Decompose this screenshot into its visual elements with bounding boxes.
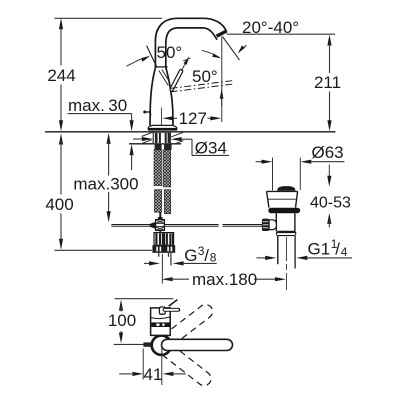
svg-text:/: / bbox=[335, 239, 340, 258]
svg-text:Ø63: Ø63 bbox=[312, 143, 344, 162]
wire hose-end reference line y=250 bbox=[55, 249, 153, 251]
node G1 1/4 thread dimension bbox=[257, 237, 353, 260]
svg-text:400: 400 bbox=[45, 195, 73, 214]
wire countertop line bbox=[45, 131, 335, 133]
node 211 height dimension bbox=[314, 35, 341, 132]
node max.300 dimension bbox=[73, 133, 138, 222]
node swing arc arrow bbox=[220, 89, 224, 106]
node clevis joint bbox=[269, 220, 276, 230]
svg-text:20°-40°: 20°-40° bbox=[242, 18, 299, 37]
node 50 degree tilt annotation bbox=[127, 43, 183, 66]
node spout tube side view bbox=[162, 339, 233, 350]
svg-text:/: / bbox=[204, 246, 209, 265]
svg-text:max. 30: max. 30 bbox=[68, 96, 127, 115]
wire lever alternate position dashed bbox=[171, 80, 235, 92]
wire top reference line y=18 bbox=[55, 17, 163, 19]
node diameter 34 dimension bbox=[133, 137, 229, 158]
node ball-rod knob bbox=[262, 219, 269, 231]
wire deck section hatching bbox=[142, 132, 184, 143]
node 400 depth dimension bbox=[45, 134, 73, 250]
node rod joint block bbox=[156, 220, 165, 231]
node 41 dimension bbox=[119, 345, 186, 385]
node base flange bbox=[148, 125, 177, 128]
node mounting hardware bbox=[155, 144, 162, 149]
wire spout outline bbox=[155, 18, 226, 68]
wire braided supply hoses bbox=[154, 150, 171, 214]
node pivot ring bbox=[152, 336, 171, 355]
wire riser seam line bbox=[156, 66, 168, 68]
wire spout swivel position up dashed bbox=[157, 302, 215, 351]
node 244 height dimension bbox=[47, 18, 75, 131]
svg-text:40-53: 40-53 bbox=[310, 194, 351, 211]
svg-text:41: 41 bbox=[144, 365, 163, 384]
node max.180 dimension bbox=[162, 270, 286, 289]
node pop-up rod knob bbox=[143, 111, 146, 114]
node G3/8 connector nuts bbox=[152, 233, 175, 253]
svg-text:G: G bbox=[184, 246, 197, 265]
node 20-40 degree angle annotation bbox=[223, 18, 336, 60]
node lever axis arrow bbox=[181, 56, 190, 71]
transistor lever handle raised bbox=[172, 71, 181, 89]
svg-text:8: 8 bbox=[210, 251, 217, 265]
wire pop-up vertical rod bbox=[159, 213, 161, 232]
node supply stub bbox=[114, 343, 144, 345]
wire spout swivel position down dashed bbox=[157, 340, 214, 389]
wire counter underside line bbox=[129, 143, 181, 145]
node max.30 dimension bbox=[68, 96, 134, 170]
wire spout tip extension line bbox=[221, 37, 223, 123]
wire side view reference line bbox=[115, 298, 174, 300]
node 127 projection dimension bbox=[162, 109, 221, 128]
node G3/8 thread dimension bbox=[144, 244, 217, 266]
wire faucet centerline bbox=[161, 108, 163, 128]
wire dash segment bbox=[169, 300, 178, 307]
wire tailpipe bbox=[277, 236, 279, 264]
wire drain centerline bbox=[286, 237, 288, 290]
node aerator face bbox=[217, 31, 227, 37]
svg-text:127: 127 bbox=[179, 109, 207, 128]
wire cartridge internal lines bbox=[159, 70, 170, 86]
node pop-up waste dome bbox=[277, 186, 295, 191]
node side view body bbox=[151, 308, 171, 336]
node 100 height dimension bbox=[108, 300, 136, 344]
wire connector pipes bbox=[158, 253, 160, 257]
svg-text:max.180: max.180 bbox=[192, 270, 257, 289]
svg-text:50°: 50° bbox=[157, 43, 183, 62]
svg-text:4: 4 bbox=[341, 245, 348, 259]
svg-text:211: 211 bbox=[314, 73, 341, 92]
svg-text:max.300: max.300 bbox=[73, 174, 138, 193]
node side view lever bbox=[159, 307, 165, 314]
wire horizontal pop-up rod bbox=[111, 222, 262, 229]
svg-text:100: 100 bbox=[108, 311, 136, 330]
node lower ring groove bbox=[276, 231, 295, 235]
svg-text:G1: G1 bbox=[308, 239, 331, 258]
svg-text:244: 244 bbox=[47, 66, 75, 85]
wire faucet center extension line bbox=[161, 254, 163, 284]
node pop-up waste flange bbox=[267, 191, 298, 207]
node 40-53 clamping dimension bbox=[310, 165, 351, 228]
wire drain body sides bbox=[275, 213, 277, 231]
node diameter 63 dimension bbox=[256, 143, 345, 190]
node 50 degree swing annotation bbox=[192, 50, 221, 86]
node threaded shank bbox=[153, 132, 170, 144]
node rubber seal ring bbox=[268, 208, 300, 214]
wire faucet body outline bbox=[150, 67, 173, 126]
svg-text:Ø34: Ø34 bbox=[195, 139, 227, 158]
